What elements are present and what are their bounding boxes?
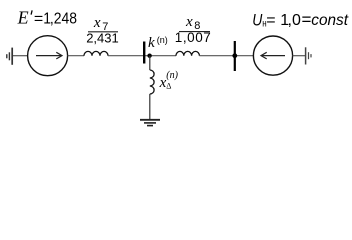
inductor x8 coil bbox=[176, 51, 199, 55]
svg-text:(n): (n) bbox=[157, 35, 168, 45]
junction dot at node k bbox=[147, 54, 151, 58]
svg-text:2,431: 2,431 bbox=[86, 30, 119, 45]
svg-text:Δ: Δ bbox=[166, 82, 171, 91]
label x8 / 1,007 (fraction) bbox=[175, 14, 212, 45]
arrow inside U source (points left) bbox=[261, 52, 285, 59]
svg-text:(n): (n) bbox=[166, 70, 178, 81]
svg-text:const: const bbox=[311, 12, 348, 29]
wire: shunt inductor down to ground bbox=[149, 94, 151, 119]
svg-text:x: x bbox=[93, 15, 101, 31]
svg-text:,0: ,0 bbox=[288, 12, 301, 29]
ground (right, rotated) bbox=[306, 47, 311, 64]
ground (left, rotated) bbox=[7, 48, 12, 65]
wire: source E to inductor x7 bbox=[68, 55, 84, 57]
wire: inductor x8 to right bus bbox=[199, 55, 253, 57]
label E' = 1,248 bbox=[17, 8, 77, 28]
wire: inductor x7 to node k bbox=[108, 55, 176, 57]
label U_H = 1,0 = const bbox=[252, 10, 348, 30]
svg-text:,248: ,248 bbox=[50, 10, 77, 28]
junction dot (right bus) bbox=[232, 53, 237, 58]
svg-text:k: k bbox=[148, 35, 155, 51]
svg-text:E: E bbox=[17, 8, 29, 28]
bus tick at node k bbox=[143, 42, 145, 64]
svg-text:x: x bbox=[185, 14, 193, 30]
label x_delta^(n) (shunt reactance) bbox=[159, 70, 179, 91]
wire: source U to right ground bbox=[293, 55, 306, 57]
source U circle bbox=[253, 36, 292, 75]
svg-text:=: = bbox=[34, 10, 43, 27]
node label k^(n) bbox=[148, 35, 168, 51]
svg-text:1,007: 1,007 bbox=[175, 30, 212, 45]
ground (bottom) bbox=[140, 120, 160, 126]
source E' circle bbox=[28, 36, 68, 76]
svg-text:=: = bbox=[302, 10, 312, 29]
label x7 / 2,431 (fraction) bbox=[86, 15, 119, 45]
svg-text:=: = bbox=[266, 12, 275, 29]
wire: left ground to source E bbox=[12, 55, 27, 57]
svg-text:U: U bbox=[252, 11, 263, 30]
inductor x7 coil bbox=[84, 51, 108, 55]
shunt inductor x_delta coil (vertical) bbox=[150, 70, 154, 94]
bus tick (right) bbox=[234, 41, 236, 71]
arrow inside E' source (points right) bbox=[36, 52, 62, 59]
wire: node k down to shunt inductor bbox=[149, 56, 151, 70]
